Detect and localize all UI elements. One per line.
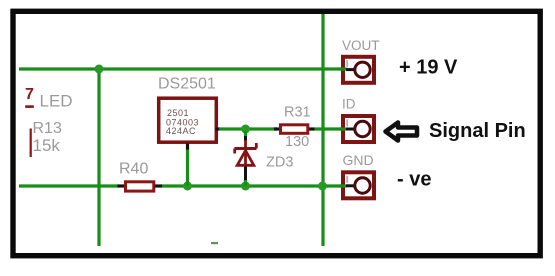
pin stub DS2501 bottom [186,144,189,151]
pin stub DS2501 right [216,127,221,130]
svg-text:7: 7 [25,86,34,103]
svg-text:R31: R31 [284,104,311,120]
svg-text:VOUT: VOUT [342,38,380,53]
node junction GND x V2 [318,182,327,191]
svg-text:ID: ID [342,97,356,112]
arrow signal pointer [386,123,418,141]
label 7 (cut LED designator) [25,86,34,108]
wire R31 to ID pad [315,127,347,130]
node junction on top wire [95,65,104,74]
wire DS2501 to node [219,127,277,130]
svg-text:ZD3: ZD3 [266,155,293,171]
resistor R13 (cut at edge) [30,129,32,158]
resistor R31 [274,125,315,134]
svg-text:R40: R40 [119,161,148,178]
pad ID [339,116,374,142]
svg-text:2501: 2501 [167,108,189,118]
pad GND [339,172,374,198]
svg-text:+ 19 V: + 19 V [399,57,458,79]
wire: vertical line V2 [321,14,324,246]
svg-text:DS2501: DS2501 [158,76,216,93]
zener diode ZD3 [235,131,257,186]
svg-text:15k: 15k [33,136,61,155]
svg-text:LED: LED [40,92,73,111]
wire DS2501 bottom to GND net [186,150,189,187]
wire: bottom horizontal GND net (right of R40) [161,184,346,187]
svg-text:- ve: - ve [397,169,431,191]
IC U1 DS2501 [159,98,217,142]
node junction ID net x ZD3 [241,125,250,134]
wire: top horizontal net to VOUT [19,67,346,70]
wire: bottom horizontal GND net (left of R40) [19,184,119,187]
node junction GND x ZD3 [241,182,250,191]
svg-text:R13: R13 [33,120,62,137]
stray mark bottom [211,242,218,244]
svg-text:130: 130 [285,134,309,150]
wire: vertical line V1 [97,69,100,246]
svg-text:Signal Pin: Signal Pin [429,120,526,142]
node junction GND x DS2501 pin [183,182,192,191]
pad VOUT [339,57,374,83]
svg-text:424AC: 424AC [166,126,196,136]
svg-text:GND: GND [343,152,374,168]
resistor R40 [118,182,163,191]
